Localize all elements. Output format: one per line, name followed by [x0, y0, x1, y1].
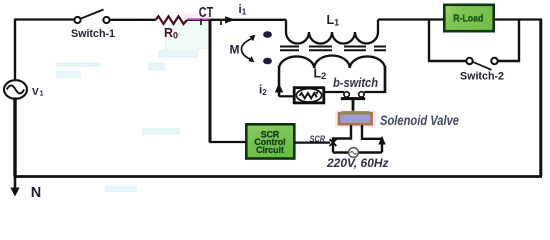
wire: left vertical lower	[13, 97, 16, 176]
wire: L2 right terminal down	[384, 66, 387, 93]
transformer core lines	[280, 47, 386, 51]
wire: Switch-2 bypass branch left	[429, 20, 466, 62]
inductor L2 (transformer secondary)	[279, 55, 385, 68]
inductor L1 (transformer primary)	[286, 20, 378, 44]
wire: R-Load to right edge	[494, 18, 542, 20]
wire: solenoid right lead	[362, 125, 382, 153]
wire: b-switch to L2 right terminal	[364, 91, 385, 93]
wire: resistor box to b-switch	[325, 91, 344, 93]
pink/cyan tint artifacts near CT	[183, 14, 210, 20]
svg-text:Switch-2: Switch-2	[460, 70, 504, 82]
solenoid valve	[339, 112, 372, 124]
svg-text:R-Load: R-Load	[453, 14, 483, 25]
AC source 220V	[349, 148, 359, 158]
current transformer CT tick marks	[201, 19, 221, 25]
solenoid valve glow	[335, 111, 376, 128]
switch Switch-2	[466, 58, 497, 70]
svg-text:Switch-1: Switch-1	[71, 28, 115, 40]
current arrow on 220V branch	[378, 136, 385, 145]
wire: between Switch-1 and R0	[110, 19, 156, 21]
wire: Switch-2 bypass branch right	[498, 20, 519, 62]
wire: SCR control box to SCR	[294, 141, 330, 143]
neutral N arrow	[14, 176, 17, 189]
svg-text:CT: CT	[199, 5, 214, 21]
current arrow i1	[225, 16, 236, 23]
wire: CT tap to SCR control box	[209, 141, 246, 143]
wire: solenoid left lead to SCR node	[333, 125, 351, 153]
svg-text:b-switch: b-switch	[333, 75, 378, 90]
wire: L1 to R-Load	[378, 18, 444, 20]
wire: right edge vertical	[539, 20, 542, 177]
source V1	[4, 80, 27, 99]
svg-text:N: N	[31, 185, 41, 200]
wire: L2 left terminal down	[278, 66, 281, 97]
polarity dot (L1 side)	[263, 31, 272, 38]
switch b-switch (solenoid actuated contact)	[341, 92, 365, 114]
SCR device marker (X)	[330, 139, 337, 146]
resistor R0	[156, 16, 188, 24]
load R-Load	[444, 5, 493, 31]
svg-text:Circuit: Circuit	[256, 145, 284, 155]
wire: R0 to transformer, through CT	[187, 19, 286, 21]
wire: CT tap vertical down to SCR control	[209, 20, 212, 143]
wire: bottom main	[15, 175, 542, 178]
wire: 220V loop bottom	[333, 151, 382, 154]
SCR control circuit box U1	[246, 124, 294, 158]
watermark artifact smudges	[56, 50, 198, 192]
svg-text:Solenoid Valve: Solenoid Valve	[380, 112, 459, 128]
current arrow i2	[275, 83, 283, 93]
switch Switch-1	[74, 10, 109, 24]
resistor (rheostat box in secondary loop)	[294, 88, 324, 103]
svg-text:M: M	[230, 43, 240, 57]
polarity dot (L2 side)	[263, 58, 272, 65]
mutual inductance arrow M	[242, 35, 256, 63]
wire: left vertical upper	[14, 19, 16, 80]
magenta highlight on CT primary wire	[187, 18, 210, 20]
svg-text:220V, 60Hz: 220V, 60Hz	[326, 156, 389, 170]
wire: L2 left lead to resistor box	[279, 95, 293, 97]
wire: top main left segment	[15, 18, 74, 20]
